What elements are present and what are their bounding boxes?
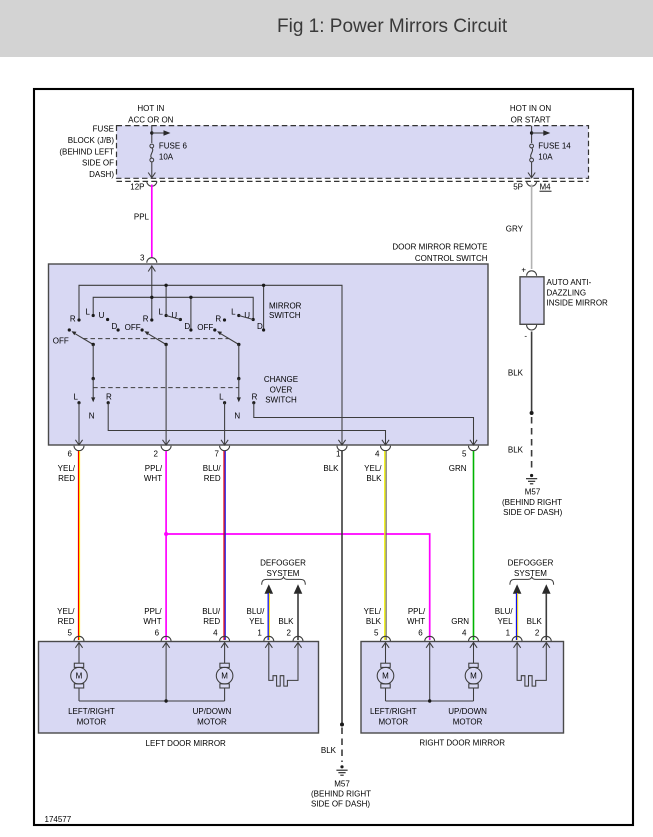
svg-text:3: 3 [140,254,145,263]
svg-text:CHANGE: CHANGE [264,375,298,384]
wire: group2 pivot to pin 2 [165,345,167,446]
wire: motor return bus right mirror [386,700,474,702]
changeover left arm arrow to N [92,379,94,398]
svg-text:M: M [382,672,389,681]
svg-text:D: D [257,322,263,331]
svg-text:M: M [76,672,83,681]
svg-text:6: 6 [68,450,73,459]
svg-text:MOTOR: MOTOR [77,718,107,727]
svg-text:BLU/: BLU/ [203,464,222,473]
svg-text:SIDE OF DASH): SIDE OF DASH) [311,800,370,809]
changeover right contacts L R [223,401,226,404]
wire: pin5 to left/right motor (right mirror) [385,643,387,664]
wire BLU/RED pin7 to left mirror [223,451,225,640]
svg-text:1: 1 [336,450,341,459]
svg-text:RED: RED [58,617,75,626]
wire BLK dashed to ground M57 [531,417,533,471]
wire GRN pin5 to right mirror [473,451,475,640]
arrow to defogger system left BLK [294,584,303,594]
svg-text:(BEHIND RIGHT: (BEHIND RIGHT [311,790,371,799]
wire BLK from auto mirror down [531,332,533,413]
svg-text:L: L [158,308,163,317]
svg-text:OFF: OFF [197,323,213,332]
svg-text:AUTO ANTI-: AUTO ANTI- [547,278,592,287]
svg-text:5: 5 [462,450,467,459]
svg-text:R: R [215,315,221,324]
svg-text:OFF: OFF [125,323,141,332]
mirror switch group 3 contacts [213,328,216,331]
entry arrows inside left mirror box [75,643,82,648]
wire bus1 (top bus) [79,285,342,445]
svg-text:SYSTEM: SYSTEM [514,569,547,578]
node: fuse 14 feed junction [530,131,533,134]
fuse F6 symbol [150,144,154,148]
svg-text:L: L [231,308,236,317]
wire: feed into fuse 6 [151,126,153,143]
svg-text:RED: RED [204,474,221,483]
svg-text:UP/DOWN: UP/DOWN [193,707,232,716]
svg-text:N: N [234,412,240,421]
node: pin3 joins bus2 [150,296,153,299]
svg-text:4: 4 [213,629,218,638]
svg-text:2: 2 [287,629,292,638]
svg-text:PPL/: PPL/ [144,607,162,616]
svg-text:YEL/: YEL/ [364,607,382,616]
connector arc at auto mirror top [527,271,537,276]
wire GRY from M4 to auto mirror [531,185,533,270]
svg-text:BLOCK (J/B): BLOCK (J/B) [68,136,115,145]
svg-text:LEFT DOOR MIRROR: LEFT DOOR MIRROR [146,739,227,748]
svg-text:2: 2 [154,450,159,459]
svg-text:12P: 12P [130,183,144,192]
svg-text:BLK: BLK [508,446,524,455]
mirror switch gang dashed link [83,338,229,340]
wire YEL/BLK pin4 to right mirror [384,451,386,640]
svg-text:DASH): DASH) [89,170,114,179]
wire PPL (magenta) from 12P to switch pin 3 [151,185,153,258]
brace defogger left [262,577,306,585]
connector arc at auto mirror bottom [527,325,537,330]
wire: changeover left R to pin 4 [108,403,385,445]
wire: bus1 drop to mirror switch right D [263,285,265,330]
svg-text:DAZZLING: DAZZLING [547,288,587,297]
svg-text:SIDE OF DASH): SIDE OF DASH) [503,508,562,517]
auto anti-dazzling inside mirror box U2 [520,277,544,325]
svg-text:R: R [252,393,258,402]
wire: pin 3 entry with up arrow [151,266,153,321]
wire: changeover left L to pin 6 [78,403,80,445]
svg-text:M: M [221,672,228,681]
svg-text:GRN: GRN [451,617,469,626]
svg-text:MOTOR: MOTOR [378,718,408,727]
svg-text:R: R [143,315,149,324]
svg-text:GRN: GRN [449,464,467,473]
wire: pin5 to left/right motor [78,643,80,664]
svg-text:HOT IN ON: HOT IN ON [510,104,551,113]
fuse F14 symbol [530,144,534,148]
wire: branch arrow right from fuse 14 feed [532,132,546,134]
brace defogger right [510,577,554,585]
svg-text:ACC OR ON: ACC OR ON [128,116,174,125]
svg-text:WHT: WHT [143,617,161,626]
svg-text:2: 2 [535,629,540,638]
svg-text:BLK: BLK [366,474,382,483]
wire: fuse 6 to 12P with down arrow [151,162,153,178]
wire YEL/RED pin6 to left mirror [77,451,79,640]
svg-text:174577: 174577 [45,815,72,824]
svg-text:BLK: BLK [323,464,339,473]
svg-text:RED: RED [203,617,220,626]
svg-text:L: L [74,393,79,402]
connector pin 3 arc [147,258,157,263]
svg-text:N: N [89,412,95,421]
svg-text:10A: 10A [159,153,174,162]
svg-text:PPL/: PPL/ [145,464,163,473]
ground M57 (center) [340,765,343,768]
svg-text:PPL: PPL [134,213,150,222]
svg-text:D: D [112,322,118,331]
svg-text:OFF: OFF [53,337,69,346]
svg-text:WHT: WHT [144,474,162,483]
mirror switch group 2 link L to U [166,316,180,320]
svg-text:5P: 5P [513,183,523,192]
svg-text:U: U [99,311,105,320]
changeover left contacts L R [77,401,80,404]
svg-text:6: 6 [155,629,160,638]
svg-text:LEFT/RIGHT: LEFT/RIGHT [370,707,417,716]
svg-text:R: R [70,315,76,324]
connector arcs at left mirror box [74,636,84,641]
mirror switch group 3 arm [221,334,239,345]
door mirror remote control switch box S1 [49,264,489,445]
wire: bus2 drop to mirror switch mid D [190,297,192,330]
wire: branch arrow right from fuse 6 feed [152,132,166,134]
svg-text:M4: M4 [540,183,552,192]
svg-text:YEL/: YEL/ [58,464,76,473]
wire: bus1 drop to mirror switch mid L [165,285,167,315]
svg-text:4: 4 [375,450,380,459]
svg-text:BLK: BLK [527,617,543,626]
svg-text:(BEHIND LEFT: (BEHIND LEFT [59,147,114,156]
svg-text:YEL/: YEL/ [57,607,75,616]
motor M left/right (right mirror) [381,663,390,667]
ground M57 (right of dash) [530,474,533,477]
header bar [0,0,653,57]
wire: pin4 to up/down motor [224,643,226,664]
mirror switch group 2 contacts [141,328,144,331]
left door mirror box [39,642,319,734]
node: BLK splice [530,411,534,415]
svg-text:RIGHT DOOR MIRROR: RIGHT DOOR MIRROR [419,739,505,748]
svg-text:FUSE 14: FUSE 14 [538,141,571,150]
wire: changeover right L to pin 7 [224,403,226,445]
svg-text:+: + [521,266,526,275]
connector 12P arc [147,181,157,186]
node: fuse 6 feed junction [150,131,153,134]
defogger element (right mirror) [517,643,546,687]
svg-text:M57: M57 [334,779,350,788]
svg-text:SWITCH: SWITCH [269,311,301,320]
svg-text:FUSE 6: FUSE 6 [159,141,188,150]
wire: group3 pivot to changeover right [238,345,240,379]
svg-text:RED: RED [58,474,75,483]
wire BLK pin1 to ground [341,451,343,723]
svg-text:BLU/: BLU/ [495,607,514,616]
connector 5P arc [527,181,537,186]
svg-text:7: 7 [215,450,220,459]
svg-text:BLK: BLK [278,617,294,626]
svg-text:1: 1 [506,629,511,638]
svg-text:PPL/: PPL/ [408,607,426,616]
svg-text:MIRROR: MIRROR [269,301,302,310]
svg-text:MOTOR: MOTOR [453,718,483,727]
svg-text:5: 5 [68,629,73,638]
changeover right arm arrow to N [238,379,240,398]
wire: pin4 to up/down motor (right mirror) [473,643,475,664]
motor M left/right (left mirror) [74,663,83,667]
changeover left pivot node [92,377,95,380]
arrow to defogger system right BLK [542,584,551,594]
svg-text:BLK: BLK [321,746,337,755]
svg-text:-: - [524,332,527,341]
svg-text:OR START: OR START [511,116,551,125]
wire: group1 pivot to changeover left [92,345,94,379]
svg-text:R: R [106,393,112,402]
svg-text:FUSE: FUSE [93,125,114,134]
svg-text:YEL: YEL [249,617,265,626]
motor M up/down (right mirror) [469,663,478,667]
connector arcs below switch pins [74,446,84,451]
motor M up/down (left mirror) [220,663,229,667]
svg-text:UP/DOWN: UP/DOWN [448,707,487,716]
mirror switch group 2 arm [148,334,166,345]
svg-text:M57: M57 [525,488,541,497]
wire: pin6 down to return bus (right mirror) [429,643,431,701]
svg-text:DEFOGGER: DEFOGGER [260,559,306,568]
svg-text:LEFT/RIGHT: LEFT/RIGHT [68,707,115,716]
wire: motor return bus left mirror [79,700,225,702]
svg-text:YEL: YEL [497,617,513,626]
wire: fuse 14 to 5P with down arrow [531,162,533,178]
mirror switch group 1 arm [75,334,93,345]
svg-text:L: L [86,308,91,317]
fuse block J/B dashed box [117,126,589,179]
wire: changeover right R to pin 5 [254,403,474,445]
svg-text:10A: 10A [538,153,553,162]
svg-text:WHT: WHT [407,617,425,626]
right door mirror box [361,642,564,734]
svg-text:5: 5 [374,629,379,638]
svg-text:BLK: BLK [366,617,382,626]
svg-text:BLK: BLK [508,369,524,378]
arrow to defogger system right BLU/YEL [513,584,522,594]
svg-text:6: 6 [418,629,423,638]
defogger element (left mirror) [269,643,298,687]
node: PPL/WHT splice [164,532,168,536]
svg-text:SWITCH: SWITCH [265,396,297,405]
svg-text:HOT IN: HOT IN [137,104,164,113]
entry arrows inside right mirror box [382,643,389,648]
wire bus2 (second bus) [93,297,253,319]
wire: feed into fuse 14 [531,126,533,143]
wire: pin6 down to return bus [165,643,167,701]
wire PPL/WHT pin2 to left mirror [165,451,167,640]
svg-text:1: 1 [257,629,262,638]
arrow to defogger system left BLU/YEL [265,584,274,594]
svg-text:MOTOR: MOTOR [197,718,227,727]
svg-text:GRY: GRY [506,225,524,234]
svg-text:SIDE OF: SIDE OF [82,159,114,168]
fuse block bottom second dashed line [117,180,589,182]
svg-text:INSIDE MIRROR: INSIDE MIRROR [547,299,609,308]
svg-text:D: D [184,322,190,331]
svg-text:BLU/: BLU/ [202,607,221,616]
svg-text:CONTROL SWITCH: CONTROL SWITCH [415,254,488,263]
wire PPL/WHT branch to right mirror [166,534,430,640]
svg-text:DOOR MIRROR REMOTE: DOOR MIRROR REMOTE [392,243,487,252]
pin exit arrows at switch bottom [75,440,82,445]
mirror switch group 1 contacts [68,328,71,331]
svg-text:BLU/: BLU/ [247,607,266,616]
changeover gang dashed link [93,387,239,389]
mirror switch group 3 link L to U [239,316,253,320]
svg-text:M: M [470,672,477,681]
svg-text:4: 4 [462,629,467,638]
svg-text:OVER: OVER [270,385,293,394]
svg-text:(BEHIND RIGHT: (BEHIND RIGHT [502,498,562,507]
wire BLK dashed to ground M57 [341,728,343,763]
node: BLK splice [340,723,344,727]
changeover right pivot node [237,377,240,380]
svg-text:YEL/: YEL/ [364,464,382,473]
connector arcs at right mirror box [381,636,391,641]
svg-text:DEFOGGER: DEFOGGER [508,559,554,568]
svg-text:L: L [219,393,224,402]
